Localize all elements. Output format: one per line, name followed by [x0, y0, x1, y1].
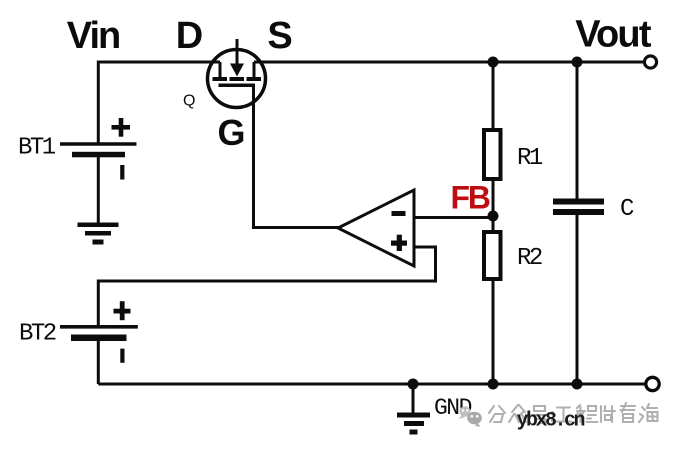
svg-text:C: C — [620, 196, 634, 223]
svg-text:Q: Q — [183, 93, 195, 110]
svg-text:Vin: Vin — [67, 15, 119, 57]
svg-text:FB: FB — [451, 180, 490, 216]
svg-text:G: G — [217, 112, 245, 153]
svg-text:BT2: BT2 — [19, 321, 56, 348]
svg-text:BT1: BT1 — [18, 135, 56, 162]
svg-text:S: S — [267, 15, 292, 57]
svg-text:R2: R2 — [517, 245, 542, 272]
svg-text:ybx8.cn: ybx8.cn — [517, 410, 585, 433]
svg-text:Vout: Vout — [575, 14, 652, 56]
svg-text:D: D — [176, 15, 203, 57]
svg-text:R1: R1 — [517, 145, 543, 172]
